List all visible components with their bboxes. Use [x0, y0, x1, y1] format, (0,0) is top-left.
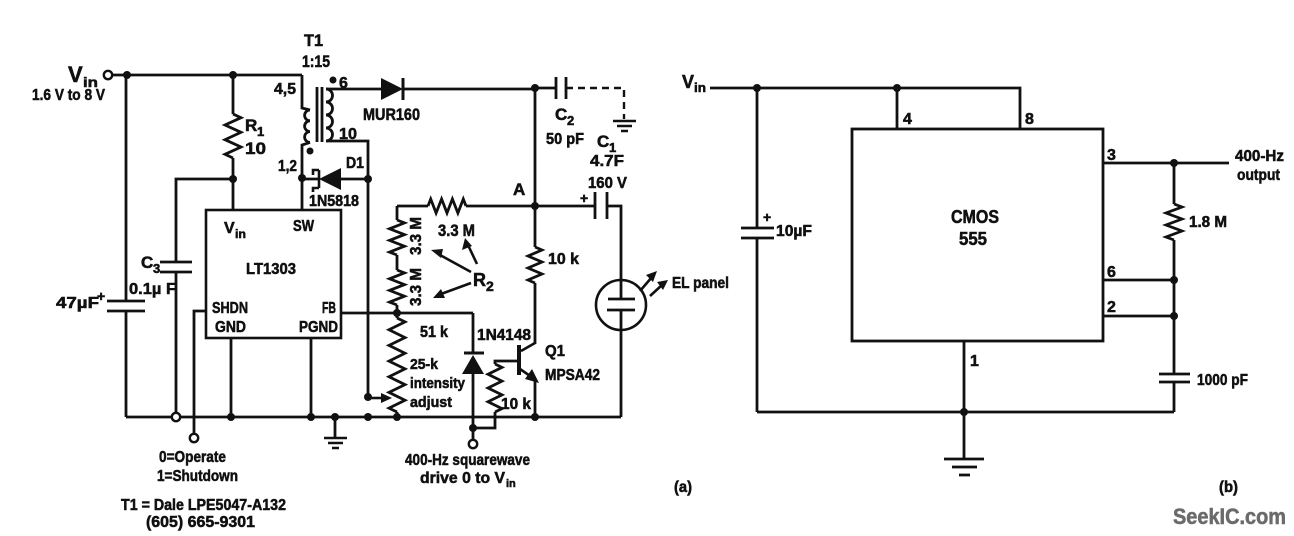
node junction PGND rail — [307, 413, 315, 421]
pot wiper node — [364, 393, 372, 401]
svg-text:C: C — [141, 253, 153, 272]
node junction D1 anode — [364, 175, 372, 183]
svg-text:10: 10 — [245, 139, 266, 158]
node A junction — [531, 202, 539, 210]
svg-text:in: in — [506, 478, 516, 490]
svg-text:CMOS: CMOS — [951, 207, 999, 227]
label shutdown control — [157, 449, 238, 485]
svg-text:SHDN: SHDN — [212, 300, 248, 317]
wire primary to node SW — [302, 142, 310, 178]
wire C2 node down to node A — [534, 88, 537, 206]
wire dashed C2 to ground — [566, 88, 624, 119]
wire 10uF bottom — [756, 238, 759, 412]
svg-text:1.8 M: 1.8 M — [1189, 214, 1227, 231]
EL panel lamp — [596, 280, 646, 417]
svg-text:1N4148: 1N4148 — [477, 327, 531, 344]
node junction Vin-47uF — [123, 71, 131, 79]
svg-text:0=Operate: 0=Operate — [159, 449, 226, 466]
arrow R2 to horizontal 3.3M — [462, 238, 477, 264]
transformer T1 secondary winding — [326, 89, 333, 141]
svg-text:1N5818: 1N5818 — [309, 193, 359, 210]
node junction wiper rail — [364, 413, 372, 421]
node junction pin2 — [1170, 312, 1178, 320]
label C2 50pF — [546, 105, 584, 148]
wire pin2 to 1000pF — [1173, 280, 1176, 374]
wire pin 3 output — [1103, 162, 1229, 165]
wire Vin down to C 47uF — [125, 75, 128, 301]
capacitor C1 — [535, 192, 621, 280]
wire secondary top to diode — [326, 88, 381, 91]
wire 10uF top — [756, 88, 759, 228]
svg-text:GND: GND — [215, 319, 246, 336]
wire FB line — [341, 312, 473, 315]
capacitor 47uF — [107, 301, 145, 311]
wire C3 to ground rail — [175, 272, 178, 413]
wire 1000pF to rail — [1173, 382, 1176, 412]
svg-text:output: output — [1237, 167, 1281, 184]
label T1 1:15 — [302, 31, 330, 71]
resistor 51k / 25k intensity pot — [389, 313, 405, 417]
svg-text:T1: T1 — [304, 31, 323, 50]
node junction pot rail — [393, 413, 401, 421]
svg-text:47µF: 47µF — [56, 295, 99, 312]
svg-text:1000 pF: 1000 pF — [1197, 372, 1248, 389]
phase dot primary pin 1,2 — [307, 148, 314, 155]
svg-text:R: R — [473, 270, 486, 290]
node junction R1 bottom / IC Vin — [229, 175, 237, 183]
node junction pin3/1.8M — [1170, 159, 1178, 167]
node junction squarewave — [469, 424, 477, 432]
svg-text:1=Shutdown: 1=Shutdown — [157, 468, 238, 485]
node junction R1 top — [229, 71, 237, 79]
svg-text:(a): (a) — [674, 479, 692, 496]
label C3 0.1uF — [129, 253, 176, 298]
svg-text:Q1: Q1 — [545, 343, 565, 360]
terminal shutdown control — [190, 434, 198, 442]
node junction divider FB — [393, 309, 401, 317]
svg-text:C: C — [597, 132, 609, 151]
svg-text:V: V — [68, 62, 83, 87]
arrow R2 to lower 3.3M — [433, 283, 471, 298]
wire pin 1 — [963, 341, 966, 412]
svg-text:2: 2 — [486, 278, 494, 294]
svg-text:2: 2 — [1107, 299, 1116, 316]
label 47uF plus — [56, 288, 105, 312]
label 400-Hz output — [1235, 148, 1284, 184]
wire MUR160 to C2 node — [403, 88, 535, 91]
svg-text:3.3 M: 3.3 M — [438, 221, 475, 240]
wire GND pin to rail — [230, 338, 233, 417]
resistor 10k collector — [528, 206, 542, 283]
node junction 10uF — [753, 84, 761, 92]
wire pin 2 — [1103, 315, 1174, 318]
terminal squarewave input — [469, 428, 477, 448]
pot wiper arrow — [368, 393, 392, 403]
wire Vin rail right circuit — [710, 88, 1020, 129]
phase dot secondary pin 6 — [330, 77, 337, 84]
svg-text:+: + — [580, 190, 588, 206]
svg-text:in: in — [694, 80, 706, 95]
svg-text:4.7F: 4.7F — [590, 153, 624, 170]
svg-text:1:15: 1:15 — [302, 52, 330, 71]
node junction C2/A — [531, 84, 539, 92]
svg-text:3.3 M: 3.3 M — [408, 217, 425, 255]
diode MUR160 — [381, 78, 403, 100]
resistor 1.8M — [1166, 163, 1182, 280]
ground rail left circuit — [126, 416, 621, 419]
svg-text:(b): (b) — [1219, 479, 1238, 496]
svg-text:400-Hz squarewave: 400-Hz squarewave — [405, 452, 530, 469]
label IC pin Vin — [224, 220, 246, 241]
label R2 — [473, 270, 494, 294]
svg-text:25-k: 25-k — [410, 356, 439, 373]
label Vin right — [682, 72, 706, 95]
svg-text:1.6 V to 8 V: 1.6 V to 8 V — [32, 87, 105, 104]
svg-text:SW: SW — [293, 218, 315, 235]
transformer T1 primary winding — [305, 110, 310, 142]
svg-text:FB: FB — [322, 300, 336, 317]
svg-text:4: 4 — [903, 111, 912, 128]
capacitor 1000pF — [1159, 374, 1190, 382]
svg-text:2: 2 — [567, 113, 574, 128]
capacitor 10uF — [741, 228, 774, 238]
svg-text:3: 3 — [153, 261, 160, 276]
IC U1 LT1303 box — [206, 210, 341, 338]
svg-text:MUR160: MUR160 — [363, 105, 420, 124]
wire pin 6 — [1103, 279, 1174, 282]
ground rail right circuit — [757, 411, 1174, 414]
resistor R2 lower 3.3M — [390, 270, 405, 313]
label CMOS 555 — [951, 207, 999, 249]
svg-text:intensity: intensity — [410, 375, 466, 392]
label 25k intensity adjust — [410, 356, 466, 411]
wire PGND pin to rail — [310, 338, 313, 417]
diode 1N4148 — [462, 353, 484, 428]
IC 555 box — [852, 129, 1103, 341]
resistor R2 horizontal 3.3M — [397, 199, 535, 213]
resistor R1 — [225, 75, 241, 179]
svg-text:555: 555 — [959, 229, 987, 249]
wire pin 4 — [896, 88, 899, 129]
transformer core — [317, 87, 322, 142]
terminal open circle C3-rail — [172, 413, 180, 421]
wire SW pin — [301, 178, 304, 210]
input terminal Vin — [104, 71, 112, 79]
wire rail to transformer primary — [302, 75, 310, 110]
resistor 10k base — [488, 361, 519, 412]
svg-text:6: 6 — [1107, 264, 1116, 281]
wire Vin top rail — [112, 74, 302, 77]
label Vin input — [32, 62, 105, 104]
label T1 Dale note — [121, 497, 286, 531]
svg-text:R: R — [245, 116, 257, 135]
arrow R2 to upper 3.3M — [431, 249, 471, 272]
svg-text:in: in — [235, 227, 246, 241]
svg-text:0.1µ F: 0.1µ F — [129, 281, 176, 298]
svg-text:51 k: 51 k — [420, 324, 448, 341]
wire 47uF to ground rail — [125, 311, 128, 417]
node junction primary/SW — [298, 174, 306, 182]
ground symbol C2 — [613, 121, 636, 131]
label 400-Hz squarewave drive — [405, 452, 530, 490]
EL panel emission arrows — [640, 271, 668, 296]
wire SHDN pin to terminal — [194, 311, 206, 434]
svg-text:+: + — [763, 209, 771, 225]
resistor R2 upper 3.3M — [390, 206, 405, 270]
svg-text:4,5: 4,5 — [274, 81, 296, 98]
ground symbol right circuit — [944, 412, 984, 475]
svg-text:EL panel: EL panel — [672, 275, 729, 292]
svg-text:(605) 665-9301: (605) 665-9301 — [146, 514, 255, 531]
wire FB to 1N4148 — [472, 313, 475, 353]
svg-text:3.3 M: 3.3 M — [408, 268, 425, 306]
svg-text:50 pF: 50 pF — [546, 131, 584, 148]
svg-text:V: V — [224, 220, 235, 237]
svg-text:PGND: PGND — [299, 319, 338, 336]
diode D1 1N5818 — [302, 168, 368, 192]
label 10uF plus — [763, 209, 812, 240]
svg-text:T1 = Dale LPE5047-A132: T1 = Dale LPE5047-A132 — [121, 497, 286, 514]
label Q1 MPSA42 — [545, 343, 600, 384]
wire R1 node to C3 — [176, 179, 233, 262]
wire D1 node down to wiper — [367, 179, 370, 397]
svg-text:1: 1 — [257, 124, 264, 139]
svg-text:MPSA42: MPSA42 — [545, 367, 600, 384]
capacitor C3 — [160, 262, 192, 272]
svg-text:1,2: 1,2 — [278, 158, 297, 175]
svg-text:drive 0 to V: drive 0 to V — [420, 470, 505, 487]
svg-text:D1: D1 — [346, 155, 364, 172]
svg-text:10 k: 10 k — [548, 251, 579, 268]
wire IC Vin pin — [232, 179, 235, 210]
svg-text:8: 8 — [1025, 111, 1034, 128]
ground symbol left circuit — [324, 413, 347, 448]
wire squarewave to 10k base resistor — [473, 412, 495, 428]
svg-text:LT1303: LT1303 — [246, 261, 296, 278]
node junction pin1 rail — [960, 408, 968, 416]
node junction GND rail — [227, 413, 235, 421]
svg-text:C: C — [555, 105, 567, 124]
svg-text:10µF: 10µF — [776, 223, 812, 240]
svg-text:SeekIC.com: SeekIC.com — [1173, 504, 1286, 529]
node junction pin6 — [1170, 276, 1178, 284]
svg-text:10 k: 10 k — [501, 396, 531, 413]
node junction emitter rail — [531, 413, 539, 421]
svg-text:1: 1 — [970, 353, 979, 370]
svg-text:160 V: 160 V — [588, 175, 627, 192]
wire secondary bottom — [326, 141, 368, 179]
transistor Q1 MPSA42 — [519, 283, 539, 417]
svg-text:3: 3 — [1107, 147, 1116, 164]
label C1 4.7F 160V — [588, 132, 627, 192]
label R1 10 — [245, 116, 266, 158]
svg-text:V: V — [682, 72, 694, 92]
node junction pin4 — [893, 84, 901, 92]
svg-text:+: + — [97, 288, 105, 304]
svg-text:400-Hz: 400-Hz — [1235, 148, 1284, 165]
svg-text:adjust: adjust — [410, 394, 452, 411]
svg-text:A: A — [513, 180, 525, 199]
capacitor C2 — [535, 77, 566, 99]
